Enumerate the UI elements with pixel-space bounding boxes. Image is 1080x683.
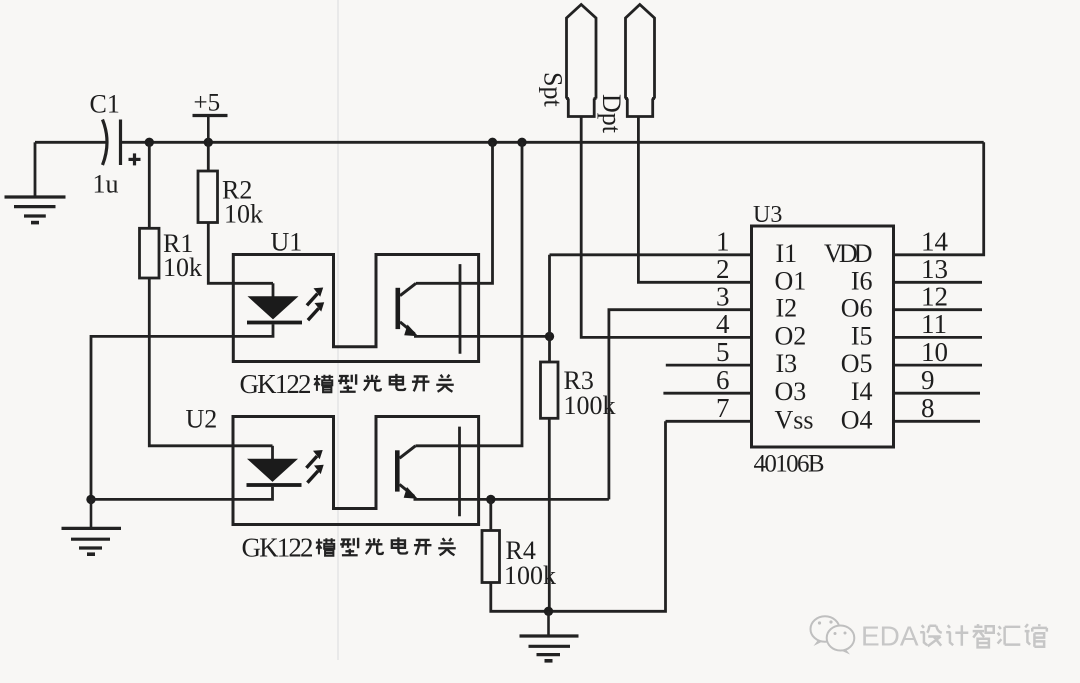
- U2 collector wire up to rail: [416, 142, 523, 446]
- svg-text:3: 3: [716, 282, 730, 312]
- svg-text:6: 6: [716, 365, 730, 395]
- U3 pin 11 wire and number: [894, 309, 983, 339]
- node: U1/U2 cathode ground junction: [86, 495, 95, 504]
- svg-text:Dpt: Dpt: [597, 94, 626, 134]
- svg-text:11: 11: [921, 309, 947, 339]
- svg-text:8: 8: [921, 393, 935, 423]
- svg-text:Vss: Vss: [775, 405, 814, 434]
- svg-text:13: 13: [921, 254, 948, 284]
- svg-text:+5: +5: [194, 90, 221, 117]
- probe Spt: [566, 5, 597, 117]
- capacitor C1: [103, 120, 121, 166]
- svg-text:C1: C1: [90, 90, 120, 119]
- Dpt wire down to pin2 line: [638, 117, 751, 283]
- U3 pin 9 wire and number: [894, 365, 981, 395]
- resistor R2: [198, 142, 273, 283]
- node: ground junction bottom: [544, 607, 553, 616]
- svg-text:I2: I2: [776, 294, 798, 323]
- U3 pin 10 wire and number: [894, 337, 983, 367]
- svg-text:GK122: GK122: [240, 369, 312, 399]
- node: +5 / R2 junction: [204, 138, 213, 147]
- optocoupler U2 GK122 outline with slot: [233, 417, 479, 525]
- svg-text:I6: I6: [851, 266, 873, 295]
- wire: pin3 riser from U2 emitter: [609, 310, 752, 500]
- svg-text:4: 4: [716, 309, 730, 339]
- U2 LED cathode wire to left ground: [91, 487, 273, 500]
- IC U3 40106B body: [752, 226, 894, 447]
- U1 LED cathode wire to left ground: [91, 324, 273, 499]
- svg-text:5: 5: [716, 337, 730, 367]
- U3 pin 14 wire and number: [894, 142, 984, 256]
- svg-text:I1: I1: [776, 239, 798, 268]
- wire: junction up to pin1 line: [548, 255, 551, 337]
- wire: pin7 Vss line: [666, 420, 752, 423]
- svg-text:O5: O5: [841, 349, 873, 378]
- wire: ground to C1 left plate: [35, 141, 107, 144]
- svg-text:O6: O6: [841, 294, 873, 323]
- resistor R3: [541, 336, 559, 611]
- U3 pin 8 wire and number: [894, 393, 981, 423]
- svg-text:9: 9: [921, 365, 935, 395]
- svg-text:2: 2: [716, 254, 730, 284]
- svg-text:O4: O4: [841, 405, 873, 434]
- main +V rail wire: [121, 141, 984, 144]
- U1 LED anode wire: [272, 283, 275, 296]
- svg-text:VDD: VDD: [824, 239, 873, 268]
- U2 caption GK122 slot photoswitch: [242, 533, 456, 563]
- U1 caption GK122 slot photoswitch: [240, 369, 454, 399]
- U1 collector wire up to rail: [416, 142, 493, 283]
- wire: pin5 stub: [666, 364, 752, 367]
- U1 LED (emitter diode): [247, 296, 302, 324]
- U1 emitter wire to R3 junction: [414, 335, 550, 338]
- svg-text:1u: 1u: [93, 170, 119, 199]
- node: R3 / I1 / U1 emitter junction: [545, 332, 554, 341]
- optocoupler U1 GK122 outline with slot: [233, 255, 478, 362]
- svg-text:40106B: 40106B: [754, 451, 825, 478]
- svg-text:GK122: GK122: [242, 533, 314, 563]
- svg-text:U2: U2: [186, 405, 218, 434]
- svg-text:I4: I4: [851, 377, 873, 406]
- watermark logo (chat bubbles): [811, 616, 855, 654]
- svg-text:O3: O3: [775, 377, 807, 406]
- resistor R1: [140, 142, 273, 446]
- svg-text:12: 12: [921, 282, 948, 312]
- U1 detector plate bar: [459, 264, 462, 354]
- svg-text:U3: U3: [753, 202, 782, 228]
- svg-text:I3: I3: [776, 349, 798, 378]
- C1 polarity +: [129, 153, 141, 165]
- probe Dpt: [625, 5, 655, 117]
- ground GND3 bottom middle: [520, 611, 579, 661]
- svg-text:10k: 10k: [163, 253, 202, 282]
- svg-text:1: 1: [716, 227, 730, 257]
- node: C1 / R1 junction: [145, 138, 154, 147]
- resistor R4: [482, 421, 666, 611]
- node: U2 collector riser junction: [517, 138, 526, 147]
- U2 detector plate bar: [458, 427, 461, 517]
- U2 phototransistor: [395, 446, 418, 499]
- U2 emitter wire to pin3 riser: [414, 498, 609, 501]
- svg-text:O1: O1: [775, 266, 807, 295]
- node: R4 / U2 emitter junction: [486, 495, 495, 504]
- node: U1 collector riser junction: [488, 138, 497, 147]
- svg-text:14: 14: [921, 227, 949, 257]
- wire: pin6 stub: [663, 392, 751, 395]
- power +5 supply: [193, 116, 228, 143]
- U1 phototransistor: [396, 283, 419, 336]
- wire: pin1 line from riser to U3: [550, 253, 752, 256]
- svg-text:100k: 100k: [504, 561, 556, 590]
- svg-text:EDA: EDA: [861, 621, 919, 652]
- U2 LED anode wire: [271, 446, 274, 459]
- U3 pin 13 wire and number: [894, 254, 983, 284]
- watermark text (CJK): [920, 624, 1047, 647]
- svg-text:Spt: Spt: [539, 72, 568, 107]
- svg-text:U1: U1: [271, 228, 303, 257]
- U2 light emission arrows: [306, 450, 323, 483]
- svg-text:10: 10: [921, 337, 948, 367]
- svg-text:7: 7: [716, 393, 730, 423]
- Spt wire down to pin4 line: [581, 117, 751, 338]
- U1 light emission arrows: [307, 288, 324, 321]
- svg-text:I5: I5: [851, 321, 873, 350]
- svg-text:O2: O2: [775, 321, 807, 350]
- U3 pin 12 wire and number: [894, 282, 983, 312]
- svg-text:10k: 10k: [224, 200, 263, 229]
- U2 LED (emitter diode): [247, 459, 302, 487]
- ground GND1 top-left: [5, 142, 66, 222]
- scan crease (decorative): [337, 0, 339, 660]
- ground GND2 left: [62, 499, 122, 554]
